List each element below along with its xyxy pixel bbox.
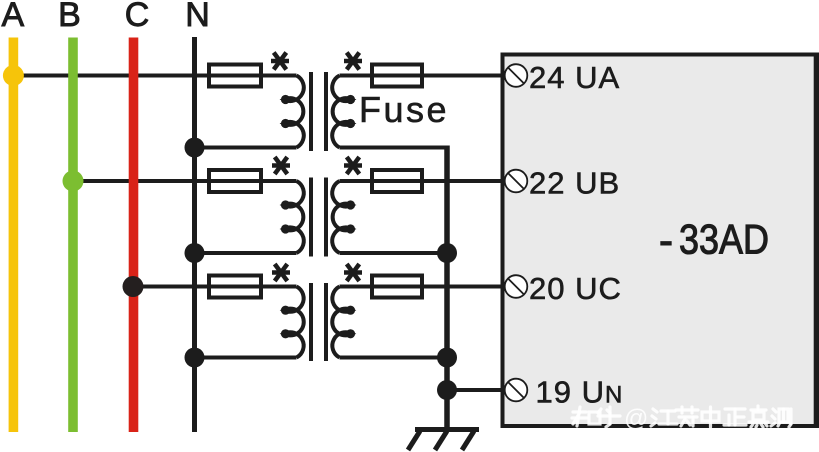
fuse F3 secondary	[372, 276, 422, 298]
svg-text:24 UA: 24 UA	[529, 60, 620, 95]
fuse F1 primary	[209, 65, 261, 87]
transformer T2 core	[309, 178, 328, 257]
wire T3 secondary return	[340, 356, 448, 360]
ground symbol	[408, 430, 479, 451]
svg-text:N: N	[185, 0, 210, 34]
polarity mark T1 primary	[271, 53, 289, 70]
wire T1 secondary to terminal 24	[340, 74, 503, 78]
line phase B (green)	[68, 38, 78, 433]
transformer T2 primary winding	[281, 181, 304, 253]
line phase C (red)	[129, 38, 139, 433]
fuse F2 primary	[209, 170, 261, 192]
junction dot N / T3 return	[185, 348, 205, 368]
terminal 19 UN screw	[505, 379, 528, 402]
junction dot N / T1 return	[185, 138, 205, 158]
polarity mark T2 primary	[272, 157, 290, 174]
wire T3 secondary to terminal 20	[340, 285, 503, 289]
wire bus to terminal 19	[447, 388, 502, 392]
device box -33AD	[503, 55, 818, 427]
transformer T3 primary winding	[281, 287, 304, 358]
transformer T1 secondary winding	[332, 76, 355, 148]
svg-text:33AD: 33AD	[679, 216, 769, 263]
wire phase B to T2 primary	[73, 179, 297, 183]
transformer T2 secondary winding	[332, 181, 355, 253]
svg-text:Fuse: Fuse	[359, 89, 449, 130]
transformer T3 secondary winding	[332, 287, 355, 358]
fuse F3 primary	[209, 276, 261, 298]
transformer T3 core	[309, 283, 328, 361]
wire T2 primary return to N	[195, 251, 297, 255]
terminal 20 UC screw	[505, 275, 528, 298]
terminal 24 UA screw	[505, 64, 528, 87]
svg-text:C: C	[125, 0, 150, 34]
watermark zhihu	[572, 406, 791, 427]
wire T1 secondary return	[340, 146, 448, 150]
svg-text:-: -	[659, 217, 673, 264]
wire T3 primary return to N	[195, 356, 297, 360]
junction dot bus / terminal 19	[437, 380, 457, 400]
polarity mark T3 primary	[272, 264, 290, 281]
svg-text:22 UB: 22 UB	[529, 166, 620, 201]
line N (neutral)	[192, 37, 197, 432]
svg-text:20 UC: 20 UC	[529, 271, 622, 306]
junction dot phase C tap (black)	[123, 276, 144, 297]
svg-text:@: @	[624, 405, 648, 432]
wire T2 secondary to terminal 22	[340, 179, 503, 183]
line phase A (yellow)	[9, 38, 19, 433]
transformer T1 core	[309, 72, 328, 151]
junction dot bus / T2 return	[437, 243, 457, 263]
polarity mark T3 secondary	[344, 264, 362, 281]
junction dot phase A tap	[3, 65, 24, 86]
wire phase C to T3 primary	[134, 285, 297, 289]
junction dot N / T2 return	[185, 243, 205, 263]
polarity mark T2 secondary	[344, 157, 362, 174]
transformer T1 primary winding	[281, 76, 304, 148]
svg-text:A: A	[1, 0, 24, 34]
polarity mark T1 secondary	[344, 53, 362, 70]
wire phase A to T1 primary	[13, 74, 297, 78]
junction dot bus / T3 return	[437, 348, 457, 368]
fuse F2 secondary	[372, 170, 422, 192]
junction dot phase B tap	[63, 171, 84, 192]
wire T2 secondary return	[340, 251, 448, 255]
wire T1 primary return to N	[195, 146, 297, 150]
fuse F1 secondary	[372, 65, 422, 87]
terminal 22 UB screw	[505, 170, 528, 193]
svg-text:B: B	[58, 0, 81, 34]
wire secondary common bus	[444, 146, 450, 430]
